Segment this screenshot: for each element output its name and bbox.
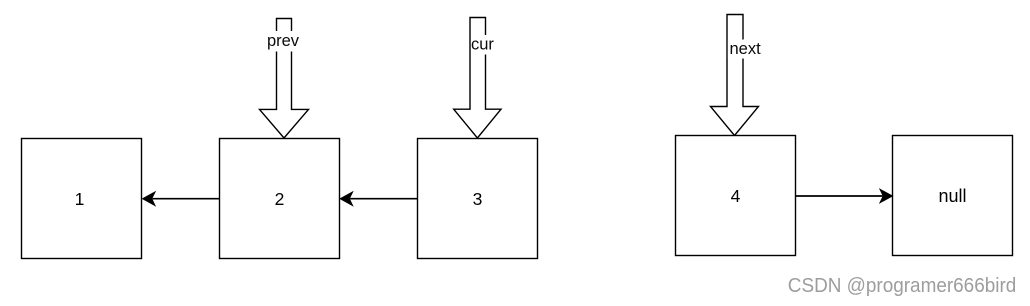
wire link 2 to 1: [153, 198, 220, 200]
svg-text:cur: cur: [471, 36, 494, 54]
node box null: [893, 136, 1013, 256]
label next: [728, 40, 762, 59]
label cur: [471, 35, 496, 55]
label prev: [265, 31, 302, 52]
svg-text:CSDN @programer666bird: CSDN @programer666bird: [788, 275, 1017, 297]
svg-text:2: 2: [275, 189, 285, 209]
watermark CSDN @programer666bird: [788, 275, 1018, 298]
svg-text:4: 4: [731, 186, 741, 206]
svg-text:1: 1: [75, 189, 85, 209]
node box 2: [220, 139, 340, 259]
arrowhead into node null: [880, 189, 892, 202]
svg-text:next: next: [730, 40, 762, 58]
wire link 3 to 2: [350, 198, 417, 200]
svg-text:3: 3: [473, 189, 483, 209]
pointer arrow cur (hollow down arrow above node 3): [454, 18, 501, 139]
wire link 4 to null: [796, 195, 883, 197]
node box 3: [418, 139, 538, 259]
arrowhead into node 1: [143, 192, 155, 206]
pointer arrow prev (hollow down arrow above node 2): [260, 19, 309, 139]
node box 4: [676, 136, 796, 256]
svg-text:null: null: [938, 186, 966, 206]
pointer arrow next (hollow down arrow above node 4): [711, 15, 759, 136]
arrowhead into node 2: [340, 192, 352, 206]
svg-text:prev: prev: [267, 32, 300, 50]
node box 1: [22, 139, 142, 259]
